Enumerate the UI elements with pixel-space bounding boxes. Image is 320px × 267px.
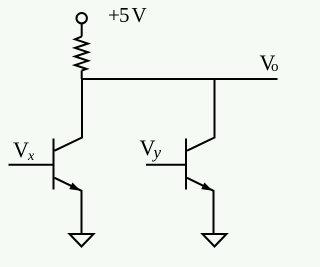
label Vo (260, 50, 279, 75)
transistor Q2 base wire (146, 164, 186, 166)
transistor Q1 base bar (53, 139, 55, 190)
label Vy (140, 135, 162, 162)
transistor Q2 emitter wire (187, 178, 214, 191)
svg-text:o: o (271, 59, 279, 75)
transistor Q2 collector wire (187, 79, 215, 151)
transistor Q1 emitter wire (55, 178, 82, 191)
transistor Q1 collector wire (55, 79, 83, 151)
ground symbol left (70, 234, 94, 247)
wire resistor to rail (81, 71, 83, 80)
transistor Q2 emitter lead (213, 190, 215, 234)
output rail wire (81, 78, 278, 80)
supply terminal circle (77, 13, 87, 23)
ground symbol right (203, 234, 227, 247)
svg-text:5: 5 (119, 3, 130, 27)
transistor Q1 base wire (9, 164, 54, 166)
svg-text:V: V (132, 3, 147, 27)
transistor Q1 emitter arrow (70, 183, 79, 190)
svg-text:x: x (27, 149, 35, 164)
svg-text:y: y (152, 143, 162, 162)
transistor Q1 emitter lead (81, 190, 83, 234)
transistor Q2 base bar (185, 139, 187, 190)
label Vx (13, 137, 35, 164)
wire terminal to resistor (81, 23, 83, 36)
svg-text:V: V (13, 137, 29, 162)
transistor Q2 emitter arrow (202, 183, 211, 190)
resistor R1 (75, 37, 88, 71)
label +5 V (108, 3, 147, 27)
